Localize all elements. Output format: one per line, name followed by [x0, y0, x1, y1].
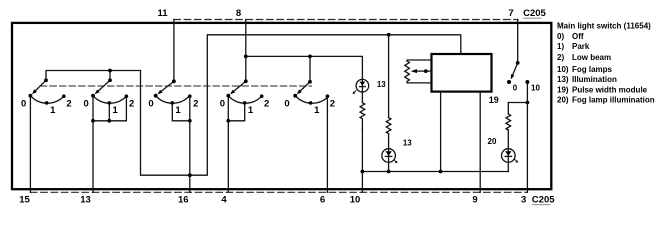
main light switch outer box — [12, 23, 551, 189]
wire S3 to pin 16 — [189, 121, 191, 193]
svg-text:20): 20) — [557, 96, 569, 105]
svg-text:0: 0 — [284, 99, 289, 110]
wire S2 to pin 13 — [92, 121, 94, 193]
svg-text:10): 10) — [557, 65, 569, 74]
wire S4 contacts jumper — [228, 96, 244, 121]
svg-text:Low beam: Low beam — [572, 53, 611, 62]
connector C205 top dashed line — [174, 19, 518, 21]
wire S1 pivot to pin 15 — [29, 96, 31, 193]
wire S2 contacts jumper — [93, 96, 126, 121]
svg-text:2): 2) — [557, 53, 564, 62]
svg-text:13): 13) — [557, 75, 569, 84]
svg-text:19): 19) — [557, 85, 569, 94]
pulse width module box U1 — [432, 54, 492, 92]
LED 13a (illumination) — [353, 79, 369, 94]
svg-text:2: 2 — [129, 99, 134, 110]
wire pin 3 — [526, 103, 528, 193]
resistor R2 — [386, 118, 391, 134]
wire module bottom-right lead to pin 9 — [479, 92, 481, 193]
switch S5 — [293, 80, 329, 105]
wire pin 10 — [361, 172, 363, 193]
svg-text:2: 2 — [264, 99, 269, 110]
svg-text:2: 2 — [66, 99, 71, 110]
resistor R1 — [360, 92, 365, 129]
svg-text:2: 2 — [330, 99, 335, 110]
wire S4 to pin 4 — [227, 121, 229, 193]
svg-text:13: 13 — [403, 139, 412, 148]
svg-text:20: 20 — [488, 137, 497, 146]
svg-text:1: 1 — [175, 105, 181, 116]
wire to R4 — [508, 103, 527, 114]
svg-text:Illumination: Illumination — [572, 75, 617, 84]
pin 11 wire — [173, 20, 175, 82]
svg-text:C205: C205 — [523, 8, 546, 19]
potentiometer R3 — [405, 60, 432, 83]
wire bus sw1-sw2 wipers — [46, 35, 461, 175]
pin 7 wire — [517, 20, 519, 63]
svg-text:10: 10 — [531, 83, 540, 92]
wire top bus to R2 — [388, 35, 390, 118]
svg-text:1: 1 — [113, 105, 119, 116]
svg-text:Pulse width module: Pulse width module — [572, 85, 648, 94]
svg-text:Off: Off — [572, 32, 584, 41]
svg-text:0: 0 — [148, 99, 153, 110]
svg-text:Fog lamps: Fog lamps — [572, 65, 613, 74]
junction top bus — [387, 33, 391, 37]
svg-text:7: 7 — [508, 8, 513, 19]
junction pin8 bus — [244, 55, 248, 59]
svg-text:1: 1 — [50, 105, 56, 116]
svg-text:15: 15 — [19, 194, 30, 205]
svg-text:8: 8 — [236, 8, 241, 19]
svg-text:9: 9 — [472, 194, 477, 205]
svg-text:11: 11 — [157, 8, 168, 19]
svg-text:0): 0) — [557, 32, 564, 41]
svg-text:4: 4 — [221, 194, 227, 205]
svg-text:3: 3 — [521, 194, 526, 205]
wire S6 contact 10 down — [526, 82, 528, 103]
connector C205 bottom dashed line — [31, 191, 528, 193]
switch S2 — [91, 78, 128, 104]
wire S3 contacts jumper — [172, 96, 190, 121]
wire sw2 wiper stub — [109, 71, 111, 81]
svg-text:0: 0 — [21, 99, 26, 110]
switch S1 — [29, 78, 66, 104]
svg-text:10: 10 — [350, 194, 361, 205]
fog lamp switch S6 — [507, 61, 529, 84]
LED 13b (illumination) — [382, 134, 398, 172]
junction sw2 bus — [108, 69, 112, 73]
svg-text:16: 16 — [178, 194, 189, 205]
svg-text:Fog lamp illumination: Fog lamp illumination — [572, 96, 655, 105]
svg-text:1): 1) — [557, 42, 564, 51]
wire S5 contact2 to pin 6 — [326, 96, 328, 192]
svg-text:0: 0 — [84, 99, 89, 110]
svg-text:0: 0 — [220, 99, 225, 110]
pin 8 wire — [245, 20, 247, 82]
svg-text:1: 1 — [248, 105, 254, 116]
svg-text:C205: C205 — [532, 194, 555, 205]
wire module bottom-left lead — [440, 92, 442, 172]
switch S4 — [226, 79, 263, 104]
svg-text:6: 6 — [320, 194, 325, 205]
svg-text:19: 19 — [489, 95, 499, 105]
LED cathode bus — [362, 171, 508, 173]
svg-text:Park: Park — [572, 42, 590, 51]
svg-text:2: 2 — [193, 99, 198, 110]
wire pin8 bus to lamps — [246, 56, 363, 79]
wire R1 to pin10 bus — [361, 129, 363, 172]
switch S3 — [154, 79, 192, 104]
resistor R4 — [506, 114, 511, 130]
mechanical link dashed line — [40, 85, 311, 87]
svg-text:0: 0 — [513, 83, 518, 92]
svg-text:Main light switch (11654): Main light switch (11654) — [557, 21, 651, 30]
svg-text:1: 1 — [314, 105, 320, 116]
svg-text:13: 13 — [377, 80, 386, 89]
svg-text:13: 13 — [80, 194, 91, 205]
LED 20 (fog lamp illumination) — [502, 130, 519, 172]
